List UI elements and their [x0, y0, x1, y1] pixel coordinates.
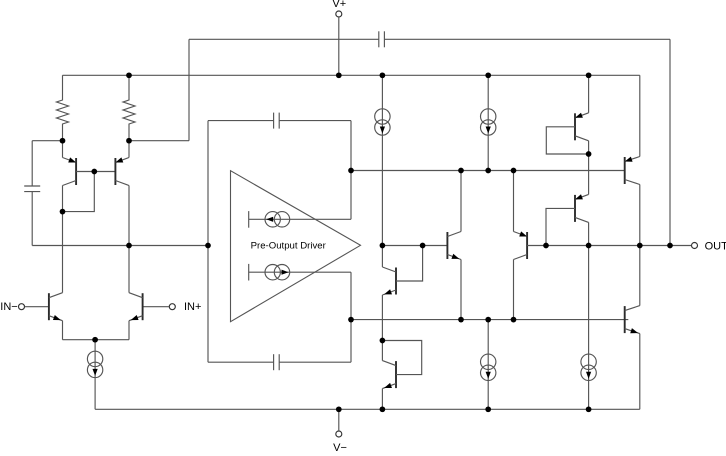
wire driver box left edge — [207, 121, 209, 363]
node upper line Q9 — [511, 168, 517, 174]
capacitor C2 — [379, 31, 385, 47]
V+ terminal — [332, 0, 346, 17]
wire Q4 collector to Q2 collector — [128, 186, 130, 293]
wire Q1 emitter — [62, 321, 64, 340]
wire Q5 base tie — [396, 246, 423, 282]
current source I6 — [265, 212, 290, 227]
wire driver box bottom edge left — [208, 361, 274, 363]
op-amp triangle Pre-Output Driver — [231, 171, 361, 322]
wire Q3 collector to Q1 collector — [62, 212, 64, 293]
node Q6 emitter rail — [380, 406, 386, 412]
transistor Q11 — [625, 157, 640, 185]
wire output node line — [546, 245, 691, 247]
wire Q9 collector — [513, 260, 515, 320]
current source I2 — [481, 109, 496, 135]
wire Q4 emitter — [128, 141, 130, 158]
wire right drop to OUT node — [669, 39, 671, 245]
node rail Q7 — [586, 72, 592, 78]
node top line / OUT line — [667, 243, 673, 249]
svg-text:OUT: OUT — [705, 240, 726, 252]
node lower line Q9 — [511, 317, 517, 323]
wire Q8 collector — [588, 222, 590, 245]
wire Q9 base to output line — [527, 245, 546, 247]
node Q7 collector — [586, 151, 592, 157]
transistor Q1 — [49, 293, 63, 321]
wire driver box right edge lower — [350, 272, 352, 362]
node input tail — [92, 337, 98, 343]
node Q8 collector / OUT line — [586, 243, 592, 249]
node rail I1 — [380, 72, 386, 78]
wire Q5 emitter to Q6 collector — [381, 295, 383, 341]
wire negative supply rail — [95, 408, 640, 410]
wire positive supply rail — [63, 74, 640, 76]
wire I4 feed — [487, 320, 489, 410]
wire V- to negative rail — [338, 409, 340, 431]
svg-text:Pre-Output Driver: Pre-Output Driver — [251, 241, 327, 252]
wire base-collector tie — [63, 172, 95, 212]
wire first stage output line — [32, 245, 208, 247]
wire Q3 base to Q4 base — [76, 171, 115, 173]
transistor Q4 — [115, 157, 129, 185]
V- terminal — [333, 431, 347, 454]
node lower line I4 — [485, 317, 491, 323]
capacitor C3 — [274, 113, 280, 129]
wire Q6 emitter — [381, 389, 383, 410]
wire Q7 base tie — [546, 127, 588, 154]
node Q3 collector — [60, 209, 66, 215]
IN- terminal — [0, 301, 24, 313]
resistor R2 — [123, 75, 135, 140]
transistor Q7 — [575, 113, 589, 141]
node V- rail — [336, 406, 342, 412]
svg-text:IN−: IN− — [0, 301, 17, 313]
node first stage line Q2 — [126, 243, 132, 249]
wire IN- to Q1 base — [25, 306, 49, 308]
wire Q5 collector — [381, 246, 383, 268]
current source I3 — [87, 351, 102, 377]
node I1 bottom — [380, 243, 386, 249]
svg-text:V−: V− — [333, 442, 347, 451]
wire V+ to positive rail — [338, 17, 340, 75]
transistor Q5 — [382, 267, 396, 295]
transistor Q2 — [129, 293, 143, 321]
node box lower tap — [348, 317, 354, 323]
IN+ terminal — [169, 301, 201, 313]
wire left drop to R2 bottom node — [129, 39, 189, 140]
wire Q3 collector — [62, 186, 64, 212]
wire driver box top edge left — [208, 120, 274, 122]
current source I4 — [481, 354, 496, 380]
wire top compensation line right segment — [384, 38, 670, 40]
wire R1 bottom node to C1 — [32, 141, 62, 186]
wire rail to Q11 emitter — [639, 75, 641, 156]
node rail I2 — [485, 72, 491, 78]
current source I1 — [375, 109, 390, 135]
transistor Q10 — [447, 232, 461, 260]
node I4 rail — [485, 406, 491, 412]
node R2 bottom — [126, 138, 132, 144]
wire Q6 base tie — [382, 341, 421, 375]
svg-text:IN+: IN+ — [184, 301, 201, 313]
wire Q10 collector — [460, 171, 462, 232]
wire I1 feed — [381, 75, 383, 245]
wire top compensation line left segment — [189, 38, 379, 40]
node Q11 collector / OUT line — [637, 243, 643, 249]
wire Q12 emitter to rail — [639, 334, 641, 410]
capacitor C1 — [24, 186, 40, 192]
wire I5 feed — [588, 246, 590, 410]
node first stage line box — [205, 243, 211, 249]
OUT terminal — [692, 240, 726, 252]
node lower line Q10 — [458, 317, 464, 323]
svg-text:V+: V+ — [332, 0, 346, 10]
wire emitter join — [63, 339, 130, 341]
transistor Q12 — [625, 306, 640, 334]
node R1 bottom — [60, 138, 66, 144]
node Q9 base / OUT line — [543, 243, 549, 249]
wire Q8 base tie — [546, 208, 575, 245]
node rail R2 — [126, 72, 132, 78]
node upper line I2 — [485, 168, 491, 174]
wire tail to I3 — [94, 340, 96, 410]
wire upper signal line — [351, 170, 625, 172]
node Q5-Q6 junction — [380, 338, 386, 344]
transistor Q6 — [382, 361, 396, 389]
transistor Q9 — [514, 231, 528, 259]
node I5 rail — [586, 406, 592, 412]
wire Q2 base to IN+ — [143, 306, 170, 308]
capacitor C4 — [274, 354, 280, 370]
node upper line Q10 — [458, 168, 464, 174]
wire Q7 collector — [588, 141, 590, 154]
wire Q6 collector — [381, 341, 383, 361]
transistor Q3 — [63, 157, 77, 185]
node box upper tap — [348, 168, 354, 174]
wire C1 to first stage output line — [31, 192, 33, 246]
wire Q10 emitter — [460, 260, 462, 320]
node rail V+ — [336, 72, 342, 78]
wire OUT to Q12 collector — [639, 246, 641, 306]
current source I5 — [581, 354, 596, 380]
wire I2 feed — [487, 75, 489, 170]
wire driver box right edge upper — [350, 121, 352, 220]
wire Q9 emitter — [513, 171, 515, 232]
wire Q7 collector to Q8 emitter — [588, 154, 590, 194]
wire second stage input line — [382, 245, 447, 247]
resistor R1 — [57, 75, 69, 140]
node mirror bases — [91, 169, 97, 175]
wire Q11 collector to OUT — [639, 185, 641, 246]
wire Q3 emitter — [62, 141, 64, 158]
wire driver box bottom edge right — [279, 361, 351, 363]
transistor Q8 — [575, 194, 589, 222]
node Q5 base — [420, 243, 426, 249]
wire lower signal line — [351, 319, 628, 321]
current source I7 — [265, 265, 290, 280]
wire upper internal source line — [249, 211, 351, 228]
wire Q7 emitter — [588, 75, 590, 113]
wire Q2 emitter — [128, 321, 130, 340]
wire driver box top edge right — [279, 120, 351, 122]
wire lower internal source line — [249, 264, 351, 281]
